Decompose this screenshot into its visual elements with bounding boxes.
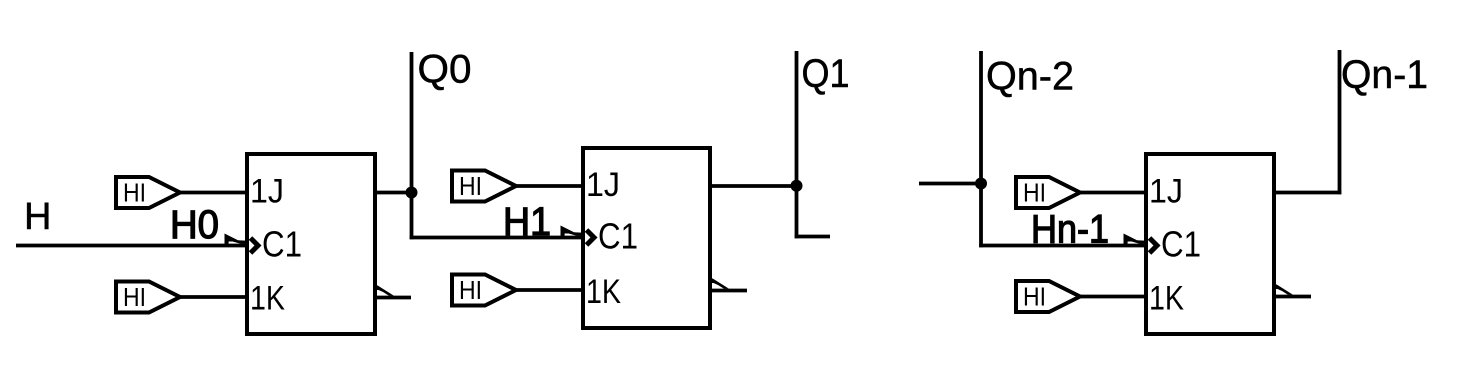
HI flag U2 K input: [452, 275, 516, 306]
clock arrowhead into U2: [561, 226, 582, 237]
wire HI flag to U3 pin 1K: [1078, 295, 1146, 299]
wire Qn-2 to U3 clock: [979, 244, 1146, 248]
svg-text:1K: 1K: [586, 273, 621, 311]
wire HI flag to U2 pin 1J: [514, 184, 583, 188]
svg-text:1J: 1J: [250, 173, 284, 211]
svg-text:Q0: Q0: [418, 48, 472, 92]
clock arrowhead into U1: [225, 234, 246, 245]
wire HI flag to U2 pin 1K: [514, 288, 583, 292]
HI flag U1 K input: [116, 282, 180, 313]
wire HI flag to U1 pin 1K: [179, 295, 247, 299]
svg-text:1J: 1J: [586, 166, 620, 204]
svg-text:HI: HI: [459, 171, 482, 201]
U1 postponed output symbol at 1K level: [375, 285, 411, 298]
wire Q1 vertical: [795, 51, 799, 238]
svg-text:HI: HI: [123, 178, 146, 208]
svg-text:Q1: Q1: [802, 52, 850, 96]
junction node Q1: [791, 180, 803, 192]
flip-flop U1 box: [247, 154, 375, 334]
wire stub from previous stage: [919, 182, 981, 186]
svg-text:H1: H1: [503, 200, 551, 244]
U1 dynamic clock indicator: [251, 238, 259, 253]
clock arrowhead into U3: [1124, 234, 1145, 245]
U2 postponed output symbol at 1K level: [710, 278, 747, 291]
wire HI flag to U1 pin 1J: [178, 191, 247, 195]
svg-text:H0: H0: [170, 203, 219, 247]
HI flag U3 J input: [1016, 177, 1080, 208]
svg-text:HI: HI: [1023, 282, 1046, 312]
svg-text:Qn-2: Qn-2: [986, 55, 1074, 99]
U3 dynamic clock indicator: [1150, 238, 1158, 253]
svg-text:HI: HI: [123, 282, 146, 312]
svg-text:C1: C1: [1161, 224, 1201, 265]
U3 postponed output symbol at 1K level: [1274, 284, 1311, 297]
svg-text:HI: HI: [1023, 178, 1046, 208]
wire U2 Q output: [710, 184, 798, 188]
U2 dynamic clock indicator: [587, 230, 595, 245]
wire U1 Q output: [375, 191, 413, 195]
junction node Q0: [406, 187, 418, 199]
wire H input to U1 clock: [16, 244, 247, 248]
junction node Qn-2: [975, 178, 987, 190]
wire Q0 to U2 clock: [410, 236, 583, 240]
flip-flop U3 box: [1146, 154, 1274, 334]
svg-text:Qn-1: Qn-1: [1341, 53, 1428, 97]
HI flag U3 K input: [1016, 281, 1080, 312]
wire U3 Q output: [1274, 191, 1341, 195]
HI flag U2 J input: [452, 171, 516, 202]
wire Qn-2 vertical: [979, 51, 983, 247]
svg-text:1J: 1J: [1149, 173, 1183, 211]
svg-text:H: H: [24, 196, 51, 238]
flip-flop U2 box: [583, 148, 710, 328]
wire Q1 stub to next stage: [795, 235, 830, 239]
wire Q0 vertical: [410, 52, 414, 239]
svg-text:Hn-1: Hn-1: [1031, 208, 1109, 252]
wire HI flag to U3 pin 1J: [1078, 191, 1146, 195]
svg-text:C1: C1: [598, 216, 638, 257]
svg-text:HI: HI: [459, 275, 482, 305]
svg-text:1K: 1K: [1149, 280, 1184, 318]
svg-text:C1: C1: [262, 224, 302, 265]
wire Qn-1 vertical: [1338, 50, 1342, 194]
svg-text:1K: 1K: [250, 280, 285, 318]
HI flag U1 J input: [116, 177, 180, 208]
